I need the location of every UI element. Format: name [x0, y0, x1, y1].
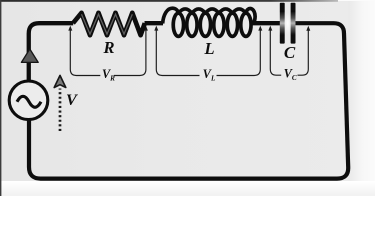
inductor L1 coil loops — [173, 13, 251, 36]
wire: inductor to capacitor — [253, 21, 281, 25]
current direction arrow on wire — [21, 49, 38, 62]
voltage arrowhead — [54, 75, 66, 87]
wire: resistor to inductor — [145, 21, 164, 25]
left dark edge — [0, 0, 1, 196]
bracket VR — [70, 30, 100, 76]
inductor top humps — [178, 9, 246, 13]
svg-text:L: L — [203, 39, 214, 58]
wire: capacitor to top-right corner and right side down — [29, 23, 348, 178]
bracket VC — [270, 30, 281, 76]
capacitor C1 right plate — [291, 3, 296, 44]
svg-text:R: R — [102, 38, 114, 57]
source sine wave — [17, 96, 41, 107]
dashed voltage arrow shaft — [59, 89, 62, 132]
resistor gray bevel core — [82, 14, 133, 34]
bracket arrowheads — [68, 26, 310, 31]
right fade margin — [348, 1, 375, 183]
bottom white strip — [0, 181, 375, 196]
arrow VL-left — [154, 26, 158, 31]
gray photo area — [0, 1, 354, 183]
capacitor C1 left plate — [280, 3, 285, 44]
arrow VR-right — [144, 26, 148, 31]
arrow VR-left — [68, 26, 72, 31]
top dark edge — [0, 0, 338, 2]
arrow VL-right — [258, 26, 262, 31]
inductor entry arc — [163, 8, 179, 23]
arrow VC-right — [306, 26, 310, 31]
inductor exit arc — [246, 9, 255, 24]
capacitor gap glow — [284, 12, 291, 34]
source V1 circle — [9, 81, 48, 120]
svg-text:C: C — [284, 43, 296, 62]
arrow VC-left — [268, 26, 272, 31]
svg-text:V: V — [66, 90, 78, 109]
bottom wire soft shadow — [36, 180, 340, 182]
bracket VL — [156, 30, 199, 76]
resistor R1 zigzag — [73, 13, 145, 35]
wire: source top to resistor — [29, 23, 73, 81]
